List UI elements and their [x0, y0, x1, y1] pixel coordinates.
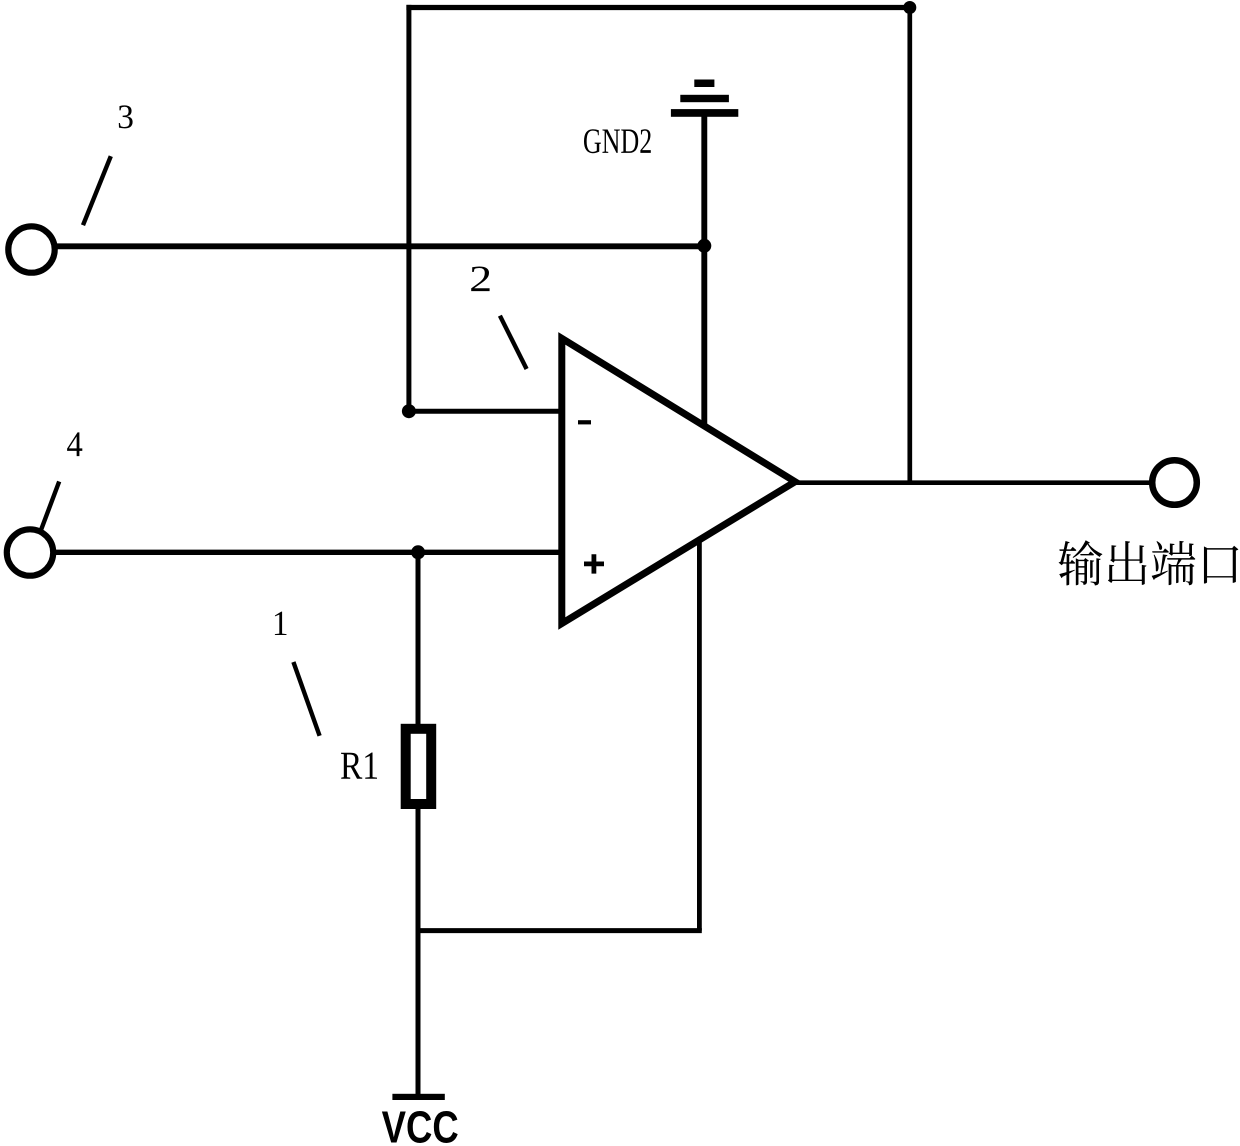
terminal output port circle: [1152, 460, 1197, 505]
terminal port 3 circle: [8, 226, 54, 272]
label 4: [67, 432, 82, 456]
resistor R1 body: [406, 729, 432, 804]
wire: bottom horizontal VCC rail: [418, 928, 702, 933]
wire: op-amp output: [795, 480, 1151, 485]
leader line for label 3: [83, 156, 111, 225]
ground GND2 bar bottom (widest): [671, 109, 738, 117]
wire: op-amp bottom pin vertical: [697, 500, 702, 931]
junction node: top right corner: [903, 1, 916, 14]
wire: minus input from feedback node: [409, 409, 563, 414]
wire: input 3 horizontal: [57, 243, 706, 249]
wire: feedback top horizontal: [406, 5, 909, 10]
wire: GND2 stem down to op-amp top edge: [701, 113, 707, 470]
wire: input 4 horizontal to plus input: [55, 550, 563, 555]
label VCC: [382, 1111, 458, 1143]
label R1: [341, 752, 377, 778]
junction node: R1 tap on input 4 wire: [411, 545, 425, 559]
label 2: [471, 267, 489, 292]
wire: feedback left vertical: [406, 5, 411, 411]
ground GND2 bar middle: [680, 95, 729, 102]
label output port (Chinese): [1059, 540, 1239, 585]
leader line for label 1: [293, 662, 319, 736]
op-amp 2 triangle body: [562, 338, 795, 623]
power VCC bar: [392, 1094, 444, 1100]
label 1: [275, 612, 287, 635]
op-amp plus sign: [584, 554, 604, 573]
leader line for label 2: [500, 316, 527, 369]
op-amp minus sign: [578, 420, 591, 424]
junction node: GND2 tap on input 3 wire: [697, 239, 711, 253]
junction node: minus input / feedback: [402, 404, 416, 418]
wire: R1 branch vertical (through resistor) down to VCC: [416, 552, 421, 1097]
leader line for label 4: [41, 482, 59, 531]
terminal port 4 circle: [7, 529, 53, 575]
ground GND2 bar top (narrowest): [694, 80, 714, 88]
label 3: [119, 105, 133, 128]
wire: feedback right vertical: [907, 5, 912, 483]
label GND2: [584, 129, 651, 153]
